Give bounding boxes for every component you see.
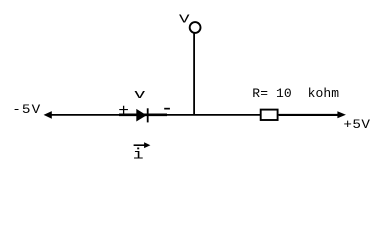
terminal V circle [190,22,201,33]
svg-text:+: + [118,103,129,121]
diode D1 cathode bar [147,108,149,122]
svg-text:R= 10 kohm: R= 10 kohm [252,86,339,101]
wire vertical to terminal [193,33,195,115]
label - polarity [164,108,170,110]
current arrow i shaft [134,144,145,146]
arrowhead left (-5V source) [44,111,52,119]
svg-text:v: v [134,87,146,102]
arrowhead right (+5V source) [337,111,346,118]
diode D1 lead wire (thick) [119,114,167,117]
wire main horizontal [46,114,340,116]
resistor R body [261,110,278,120]
current arrow i head [144,142,150,148]
svg-text:-5V: -5V [12,104,41,118]
diode D1 anode triangle [136,109,146,122]
svg-text:V: V [179,13,190,27]
resistor R lead wire [279,114,338,116]
svg-text:+5V: +5V [343,118,370,132]
label i dot [137,148,139,150]
